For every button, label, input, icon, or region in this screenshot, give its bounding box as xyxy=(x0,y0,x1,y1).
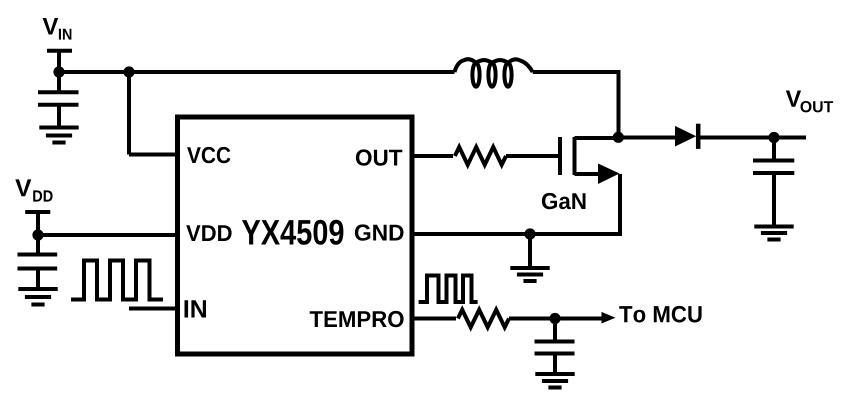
label pin OUT xyxy=(356,149,402,165)
waveform IN square wave symbol xyxy=(71,261,163,300)
label pin VCC xyxy=(187,147,230,163)
ground (TEMPRO) xyxy=(535,374,574,388)
node GND junction dot xyxy=(524,228,535,239)
label V_IN xyxy=(43,18,72,40)
wire VCC branch xyxy=(129,72,178,155)
arrow to MCU xyxy=(602,312,616,324)
label part number YX4509 xyxy=(242,220,343,245)
wire diode to VOUT xyxy=(698,136,806,140)
resistor R2 TEMPRO resistor xyxy=(458,310,509,328)
waveform TEMPRO square wave symbol xyxy=(419,276,478,303)
label pin VDD xyxy=(186,225,231,241)
wire GND drop xyxy=(528,234,532,268)
diode D1 xyxy=(675,124,698,149)
node switch node dot xyxy=(613,132,624,143)
node VCC branch junction dot xyxy=(123,66,134,77)
node TEMPRO junction dot xyxy=(549,313,560,324)
capacitor C2 output cap xyxy=(753,138,794,227)
IC U1 YX4509 body xyxy=(178,117,413,354)
capacitor C3 VDD cap xyxy=(18,235,58,289)
ground (VDD) xyxy=(18,289,57,305)
wire TEMPRO pin stub xyxy=(412,317,456,321)
label pin IN xyxy=(185,300,207,317)
node VDD junction dot xyxy=(32,229,43,240)
resistor R1 gate resistor xyxy=(455,147,506,165)
node VIN junction dot xyxy=(53,66,64,77)
node VOUT junction dot xyxy=(768,132,779,143)
wire VDD pin xyxy=(38,233,178,237)
wire IN pin stub xyxy=(129,307,178,311)
label GaN xyxy=(542,193,586,209)
label pin TEMPRO xyxy=(310,311,404,327)
wire switch node to diode xyxy=(618,136,676,140)
wire gate xyxy=(506,154,558,158)
label V_DD xyxy=(15,179,52,201)
inductor L1 xyxy=(455,59,533,86)
capacitor C1 input cap xyxy=(38,72,79,128)
capacitor C4 TEMPRO filter cap xyxy=(535,319,575,375)
ground (output) xyxy=(754,227,793,240)
wire main VIN rail xyxy=(59,70,455,74)
label pin GND xyxy=(355,224,404,240)
ground (input) xyxy=(39,128,78,143)
label V_OUT xyxy=(786,91,833,113)
wire inductor to switch node xyxy=(533,72,621,138)
ground (GND pin) xyxy=(510,268,549,281)
wire TEMPRO to node xyxy=(509,317,602,321)
wire OUT pin stub xyxy=(412,154,453,158)
node VIN supply terminal xyxy=(47,51,72,72)
transistor Q1 GaN FET xyxy=(560,137,620,234)
node VDD supply terminal xyxy=(25,212,50,235)
wire GND net xyxy=(412,232,622,236)
label To MCU xyxy=(619,306,701,323)
